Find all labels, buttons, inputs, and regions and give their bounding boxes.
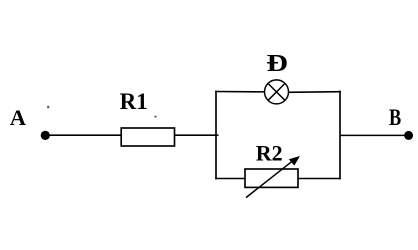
node A <box>41 131 50 140</box>
rheostat R2 body <box>245 169 298 187</box>
svg-text:A: A <box>10 105 27 130</box>
wire bottom-left segment to R2 <box>215 178 246 180</box>
wire bottom-right segment from R2 <box>298 178 341 180</box>
node B <box>404 131 413 140</box>
wire right vertical of parallel section <box>339 91 341 180</box>
lamp Đ <box>265 80 289 104</box>
svg-text:Đ: Đ <box>266 50 288 77</box>
stray speck near A <box>47 106 49 108</box>
resistor R1 <box>121 128 174 146</box>
svg-text:R1: R1 <box>120 89 148 114</box>
svg-text:R2: R2 <box>256 141 283 166</box>
wire R1 to left junction <box>175 134 219 136</box>
wire top-left segment to lamp <box>215 91 265 93</box>
svg-text:B: B <box>389 105 401 131</box>
wire top-right segment from lamp <box>288 91 341 94</box>
rheostat R2 arrow <box>246 156 300 198</box>
wire A to R1 <box>45 134 122 136</box>
wire left vertical of parallel section <box>215 91 217 180</box>
wire junction to B <box>340 134 409 136</box>
stray speck near R1 <box>154 116 156 118</box>
